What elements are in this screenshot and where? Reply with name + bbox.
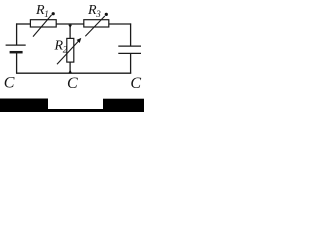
svg-text:C: C: [4, 75, 15, 92]
wire R2 vertical lower: [69, 62, 71, 73]
svg-text:C: C: [67, 75, 78, 92]
wire right rail upper: [130, 23, 132, 46]
capacitor right: bottom plate: [118, 52, 141, 54]
svg-text:R1: R1: [35, 3, 49, 19]
node junction top of R2: [68, 25, 72, 28]
svg-text:R3: R3: [87, 3, 101, 19]
battery cell left: short thick plate: [10, 51, 23, 54]
resistor R3 wiper arrow: [85, 16, 105, 36]
node junction bottom of R2: [68, 70, 72, 73]
resistor R2 wiper arrow: [57, 41, 79, 64]
black bar bottom-left: [0, 99, 48, 113]
resistor R1 body: [30, 20, 56, 27]
black strip bottom-middle: [48, 109, 103, 112]
black bar bottom-right: [103, 99, 144, 112]
capacitor right: top plate: [118, 45, 141, 47]
wire left rail upper: [16, 23, 18, 45]
wire top bus middle segment: [56, 23, 84, 25]
svg-text:C: C: [130, 75, 141, 92]
resistor R1 wiper arrow: [33, 15, 52, 37]
battery cell left: long thin plate: [6, 44, 26, 46]
wire bottom bus: [16, 72, 131, 74]
wire R2 vertical upper: [69, 24, 71, 38]
wire top bus left segment: [16, 23, 31, 25]
wire right rail lower: [130, 53, 132, 73]
svg-text:R2: R2: [54, 39, 68, 55]
resistor R2 body: [67, 38, 74, 62]
resistor R3 body: [84, 20, 109, 27]
wire top bus right segment: [109, 23, 132, 25]
wire left rail lower: [16, 53, 18, 74]
